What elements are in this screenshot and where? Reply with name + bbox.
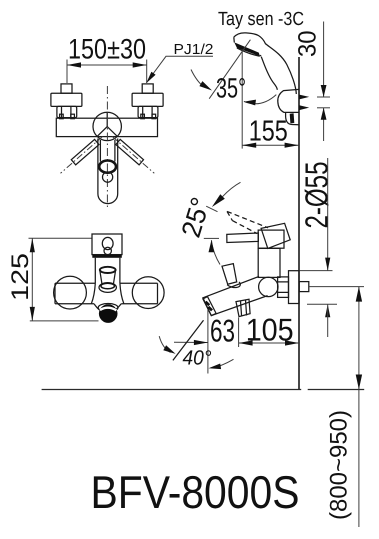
lever front dark bar bbox=[92, 255, 122, 258]
leader line PJ1/2 bbox=[153, 56, 214, 74]
dimension 2-Ø55 line bbox=[327, 158, 329, 271]
right nut tabs bbox=[141, 114, 145, 119]
right inlet square bbox=[142, 84, 153, 93]
lever front knob neck bbox=[104, 247, 111, 254]
diverter knob front top bbox=[100, 267, 116, 273]
arrowhead left of 150±30 bbox=[67, 62, 81, 67]
handle ring bbox=[99, 161, 116, 173]
arrowhead PJ1/2 bbox=[146, 72, 155, 84]
body tube bottom edge bbox=[55, 303, 158, 305]
arrowhead left 105 bbox=[239, 340, 253, 345]
hex nut facet lines bbox=[278, 282, 289, 293]
handle inner lines bbox=[100, 140, 115, 162]
lever axis tick bbox=[204, 237, 219, 239]
shower handle inner curve bbox=[261, 57, 277, 90]
svg-text:35°: 35° bbox=[216, 73, 246, 104]
arrowhead left 155 bbox=[242, 143, 256, 148]
valve circle bbox=[93, 112, 121, 140]
hex nut side bbox=[278, 277, 289, 298]
35deg arc bbox=[244, 95, 276, 104]
ball joint bbox=[259, 277, 278, 296]
right arm center line bbox=[112, 137, 154, 174]
wall line bbox=[298, 57, 300, 390]
arrowhead right 105 bbox=[285, 340, 299, 345]
40deg right arc bbox=[212, 359, 234, 368]
handle knob circle bbox=[103, 172, 113, 182]
spout outlet white crescent bbox=[100, 308, 116, 311]
tick 30 lower bbox=[317, 107, 330, 109]
25deg black arrowhead bbox=[212, 194, 225, 207]
tick flange top bbox=[300, 270, 333, 272]
pipe center line bbox=[309, 286, 364, 288]
lever front rect bbox=[92, 234, 122, 255]
diverter collar bbox=[227, 282, 240, 288]
check valve outlet bbox=[236, 299, 250, 316]
check valve facets bbox=[241, 300, 247, 316]
25deg lower arrowhead bbox=[209, 240, 215, 252]
valve V lines bbox=[97, 112, 118, 136]
wall pipe bbox=[299, 282, 309, 292]
svg-text:40°: 40° bbox=[183, 346, 212, 369]
25deg axis tick bbox=[206, 206, 217, 212]
arrowhead down 125 bbox=[30, 307, 35, 321]
svg-text:105: 105 bbox=[246, 312, 294, 348]
svg-text:Tay sen -3C: Tay sen -3C bbox=[218, 9, 304, 30]
40deg right arrowhead bbox=[209, 364, 222, 370]
left inlet nut bbox=[57, 106, 77, 117]
spout bbox=[203, 276, 268, 315]
faucet body bar (front view) bbox=[56, 118, 157, 136]
dimension 105 line bbox=[239, 342, 299, 344]
spout outlet rim front bbox=[98, 304, 118, 312]
diverter knob front sides bbox=[100, 270, 116, 283]
right inlet nut bbox=[138, 106, 158, 117]
40deg diagonal line bbox=[173, 320, 204, 360]
height dimension line bbox=[358, 287, 360, 527]
valve column lines bbox=[95, 258, 120, 283]
25deg leader curve bbox=[223, 182, 241, 196]
lever cap rotated square bbox=[261, 223, 290, 248]
shower head face dark band bbox=[234, 42, 260, 56]
svg-text:63: 63 bbox=[210, 313, 235, 349]
dimension 150±30 line bbox=[67, 64, 147, 66]
arrowhead up 125 bbox=[30, 238, 35, 252]
holder clip black bbox=[290, 113, 295, 123]
tick flange bottom bbox=[307, 303, 337, 305]
svg-text:125: 125 bbox=[7, 253, 34, 301]
arrowhead right of 150±30 bbox=[133, 62, 147, 67]
dimension 125 extension top bbox=[29, 237, 93, 239]
lever front knob egg bbox=[102, 237, 113, 249]
left flange circle bbox=[54, 276, 87, 309]
svg-text:(800~950): (800~950) bbox=[325, 410, 352, 520]
dimension 150±30 extension line left bbox=[66, 60, 68, 84]
aerator slots bbox=[206, 302, 212, 311]
valve body side bbox=[258, 248, 280, 277]
dashed lever position bbox=[227, 211, 268, 233]
left inlet body bbox=[51, 93, 82, 106]
svg-text:BFV-8000S: BFV-8000S bbox=[91, 466, 300, 518]
vertical center line bbox=[106, 86, 108, 209]
left arm center line bbox=[61, 137, 103, 174]
25deg lower arc bbox=[211, 240, 220, 264]
arrowhead right 155 bbox=[285, 143, 299, 148]
right nut facet lines bbox=[143, 107, 152, 117]
bell to outlet fillets bbox=[94, 304, 121, 310]
svg-text:155: 155 bbox=[249, 115, 288, 147]
svg-text:150±30: 150±30 bbox=[68, 33, 146, 65]
dimension 30 line lower bbox=[323, 108, 325, 141]
dimension 125 extension bottom bbox=[30, 320, 99, 322]
diverter collar outer bbox=[99, 283, 116, 293]
arrowhead down height bbox=[356, 375, 362, 390]
35deg axis line bbox=[209, 40, 250, 99]
svg-text:2-Ø55: 2-Ø55 bbox=[299, 162, 335, 229]
dimension 155 line bbox=[242, 144, 298, 146]
bottom reference line left bbox=[42, 389, 302, 391]
arrowhead up height bbox=[356, 287, 362, 302]
63 outside arrow line bbox=[174, 341, 208, 343]
arrowhead down 2-Ø55 bbox=[325, 258, 330, 271]
shower head outline bbox=[234, 33, 296, 94]
valve body bell bbox=[91, 283, 124, 304]
extension line 155 bbox=[241, 52, 243, 149]
holder lug bbox=[286, 112, 299, 124]
lever cap square bbox=[258, 230, 284, 248]
svg-text:30: 30 bbox=[294, 31, 322, 58]
wall flange bbox=[289, 271, 300, 304]
screw top bbox=[299, 95, 309, 100]
left handle arm 45deg bbox=[71, 139, 99, 165]
left inlet square bbox=[61, 84, 72, 93]
left nut facet lines bbox=[62, 107, 71, 117]
spout outlet black bbox=[99, 304, 118, 323]
svg-text:PJ1/2: PJ1/2 bbox=[174, 42, 214, 58]
arrowhead down 30 bbox=[321, 85, 327, 97]
diverter collar inner bbox=[101, 283, 115, 289]
35deg arc arrowhead bbox=[244, 100, 256, 106]
body tube top edge bbox=[55, 282, 158, 284]
35deg left arc arrowhead bbox=[199, 81, 212, 90]
arrowhead up flange bottom bbox=[325, 304, 330, 317]
extension line B bbox=[238, 318, 240, 348]
line below arrow bbox=[327, 304, 329, 337]
diverter knob side bbox=[222, 264, 237, 285]
body tube end caps bbox=[55, 283, 158, 304]
handle capsule bbox=[98, 139, 118, 204]
right flange circle bbox=[132, 277, 164, 309]
right handle arm 45deg bbox=[116, 139, 144, 165]
40deg left arrowhead bbox=[163, 345, 175, 354]
right inlet body bbox=[132, 93, 163, 106]
screw bottom bbox=[299, 105, 309, 110]
shower head left edge bbox=[233, 37, 236, 42]
solid lever bbox=[227, 233, 258, 243]
arrowhead up 30 bbox=[321, 108, 327, 120]
40deg left arc bbox=[159, 336, 170, 352]
aerator collar bbox=[203, 297, 216, 316]
bottom reference line right bbox=[308, 389, 365, 391]
63 arrowhead bbox=[194, 340, 208, 345]
left nut tabs bbox=[60, 114, 64, 119]
35deg left arc bbox=[191, 70, 205, 88]
shower face rim bbox=[237, 48, 261, 56]
tick 30 upper bbox=[317, 96, 330, 98]
extension line A bbox=[207, 310, 209, 374]
dimension 30 line upper bbox=[323, 22, 325, 98]
dimension 150±30 extension line right bbox=[146, 60, 148, 84]
dimension 125 line bbox=[31, 238, 33, 321]
shower holder bbox=[278, 89, 299, 112]
